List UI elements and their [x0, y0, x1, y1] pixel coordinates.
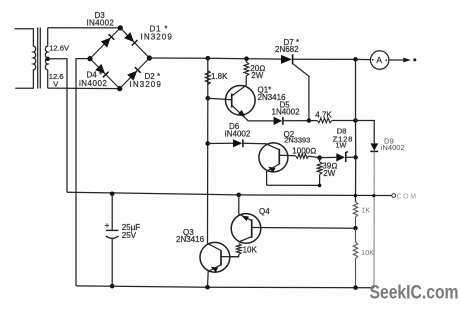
wire right vertical rail: [355, 59, 357, 201]
label D1 *: [150, 25, 169, 34]
label 1N4002 (D9): [381, 143, 405, 152]
SeekIC watermark: [370, 282, 459, 304]
wire COM rail: [67, 192, 392, 195]
label D6: [229, 122, 240, 131]
label 1N3209 (D1): [141, 33, 173, 42]
svg-text:1N4002: 1N4002: [272, 107, 301, 116]
svg-text:2W: 2W: [251, 71, 263, 80]
label Q2: [284, 130, 295, 139]
node bridge left: [87, 56, 92, 61]
label 2N682 (D7): [275, 45, 299, 54]
node D8 cathode junction: [354, 155, 358, 159]
node D7 gate junction: [307, 118, 311, 122]
wire center tap to COM rail: [48, 59, 67, 192]
wire top positive rail: [149, 58, 370, 60]
diode D3 (bridge left-top arm): [90, 28, 120, 59]
svg-text:10K: 10K: [243, 246, 258, 255]
transistor Q1 2N3416: [226, 78, 256, 121]
label 25V: [122, 231, 137, 240]
wire Q1 emitter to D5: [248, 120, 273, 122]
label D3: [95, 11, 106, 20]
resistor R3 4.7K: [317, 118, 355, 123]
label 10K: [361, 248, 374, 257]
svg-text:2N682: 2N682: [275, 45, 299, 54]
diode D9 1N4002: [370, 143, 378, 151]
wire D9 cathode down to bottom rail: [373, 151, 375, 287]
label 2N3416 (Q1): [258, 93, 287, 102]
junction COM at capacitor: [110, 192, 115, 197]
wire bridge left node to left vertical: [76, 59, 90, 286]
label Z128 (D8): [333, 134, 354, 143]
label 2N3393 (Q2): [284, 135, 310, 144]
label 1N4002 (D6): [225, 129, 251, 138]
junction bottom rail at Q3 emitter: [205, 285, 210, 290]
wire Q2 emitter rail: [267, 184, 320, 186]
SCR D7 2N682: [281, 54, 309, 120]
label 12.6V (secondary top): [49, 43, 70, 52]
label D7 *: [284, 38, 300, 47]
label 10K (R8): [243, 246, 258, 255]
svg-text:A: A: [376, 55, 382, 65]
transistor Q3 2N3416: [200, 242, 239, 287]
transistor Q4: [231, 195, 261, 243]
wire Q4 base to divider: [252, 227, 356, 230]
diode D2 (bridge bottom-right arm): [120, 58, 150, 89]
diode D4 (bridge left-bottom arm): [90, 59, 120, 89]
label 12.6 V (secondary bottom): [49, 72, 64, 88]
label 1N4002 (D5): [272, 107, 301, 116]
label 1.8K: [211, 72, 228, 81]
svg-text:1K: 1K: [361, 205, 370, 214]
junction COM at Q4 emitter: [236, 193, 241, 198]
node D6 junction: [205, 141, 210, 146]
node 4.7K right junction: [353, 118, 358, 123]
label 1N3209 (D2): [130, 80, 162, 89]
node Q1 base junction: [206, 96, 211, 101]
svg-text:2N3416: 2N3416: [176, 235, 205, 244]
svg-text:25V: 25V: [122, 231, 137, 240]
label 20 ohm: [250, 64, 265, 73]
transformer T1 primary winding: [15, 29, 36, 88]
svg-text:IN4002: IN4002: [225, 129, 251, 138]
resistor R8 10K (Q4 collector): [230, 244, 242, 257]
capacitor C1 25uF 25V: [105, 194, 119, 286]
COM terminal: [392, 194, 396, 198]
resistor R5 39 ohm 2W: [317, 158, 322, 188]
svg-text:IN3209: IN3209: [141, 33, 173, 42]
label 1K: [361, 205, 370, 214]
diode D5 1N4002: [274, 117, 283, 125]
svg-text:COM: COM: [397, 193, 418, 200]
transformer T1 secondary winding: [45, 28, 47, 88]
junction top rail at right vertical: [353, 57, 358, 62]
junction top rail at 1.8K: [206, 56, 211, 61]
svg-text:IN4002: IN4002: [87, 19, 115, 28]
label 4.7K: [315, 110, 332, 119]
wire main vertical (1.8K to Q3 base): [207, 98, 209, 243]
label 2W (R5): [323, 169, 335, 178]
wire 39 ohm node to D8: [320, 156, 337, 158]
label 1N4002 (D3): [87, 19, 115, 28]
wire ammeter to output arrow: [389, 59, 404, 61]
label 39 ohm: [322, 162, 337, 171]
node bridge bottom: [117, 86, 122, 91]
svg-text:2N3393: 2N3393: [284, 135, 310, 144]
label Q4: [259, 207, 270, 216]
wire Q2 collector: [279, 154, 295, 157]
label D4 *: [87, 71, 103, 80]
label COM: [397, 193, 418, 200]
svg-text:Q4: Q4: [259, 207, 270, 216]
label 1N4002 (D4): [79, 79, 107, 88]
zener diode D8 Z128: [336, 152, 355, 162]
junction COM at right vertical: [354, 194, 357, 197]
wire secondary top to bridge top node: [48, 27, 121, 29]
output + terminal arrow: [403, 58, 416, 63]
junction top rail at 20 ohm: [244, 56, 249, 61]
junction bottom rail at 10K: [353, 285, 358, 290]
diode D6 1N4002: [233, 139, 243, 147]
label 1W (D8): [336, 140, 347, 149]
label 2W (R2): [251, 71, 263, 80]
resistor R4 1000 ohm: [296, 154, 320, 159]
label 1000 ohm: [292, 147, 316, 156]
label 2N3416 (Q3): [176, 235, 205, 244]
wire 4.7K node to D9: [356, 121, 375, 144]
svg-text:4.7K: 4.7K: [315, 110, 332, 119]
node divider junction: [353, 226, 357, 230]
transistor Q2 2N3393: [259, 143, 288, 185]
svg-text:1.8K: 1.8K: [211, 72, 228, 81]
node bridge right: [147, 55, 152, 60]
node 39 ohm top junction: [317, 155, 322, 160]
svg-text:12.6V: 12.6V: [49, 43, 70, 52]
wire D5 to gate junction: [283, 120, 317, 122]
wire D6 anode: [208, 142, 233, 144]
svg-text:1W: 1W: [336, 140, 347, 149]
svg-text:10K: 10K: [361, 248, 374, 257]
label D2 *: [145, 72, 161, 81]
svg-text:iN4002: iN4002: [79, 79, 107, 88]
resistor R1 1.8K: [205, 58, 210, 98]
label D5: [280, 100, 291, 109]
node center tap: [46, 57, 50, 61]
svg-text:1000Ω: 1000Ω: [292, 147, 316, 156]
label Q3: [183, 228, 194, 237]
ammeter A1: [371, 51, 389, 69]
wire bottom rail: [76, 286, 374, 288]
svg-text:IN3209: IN3209: [130, 80, 162, 89]
junction COM at D9 line: [372, 194, 375, 197]
node bridge top: [118, 25, 123, 30]
transformer T1 core: [38, 28, 41, 89]
resistor R6 1K: [353, 202, 357, 229]
label Q1 *: [258, 86, 272, 95]
wire D6 to Q2 base: [244, 143, 280, 150]
resistor R7 10K: [353, 228, 357, 287]
label D8: [337, 126, 347, 135]
junction bottom rail at capacitor: [110, 284, 115, 289]
diode D1 (bridge top-right arm): [120, 28, 149, 58]
label D9: [384, 136, 394, 145]
label 25uF: [122, 223, 141, 232]
wire Q1 base: [208, 98, 232, 100]
wire secondary bottom to bridge bottom node: [48, 87, 120, 90]
svg-text:iN4002: iN4002: [381, 143, 405, 152]
svg-text:2W: 2W: [323, 169, 335, 178]
svg-text:SeekIC.com: SeekIC.com: [370, 282, 459, 304]
resistor R2 20 ohm 2W: [244, 59, 249, 78]
